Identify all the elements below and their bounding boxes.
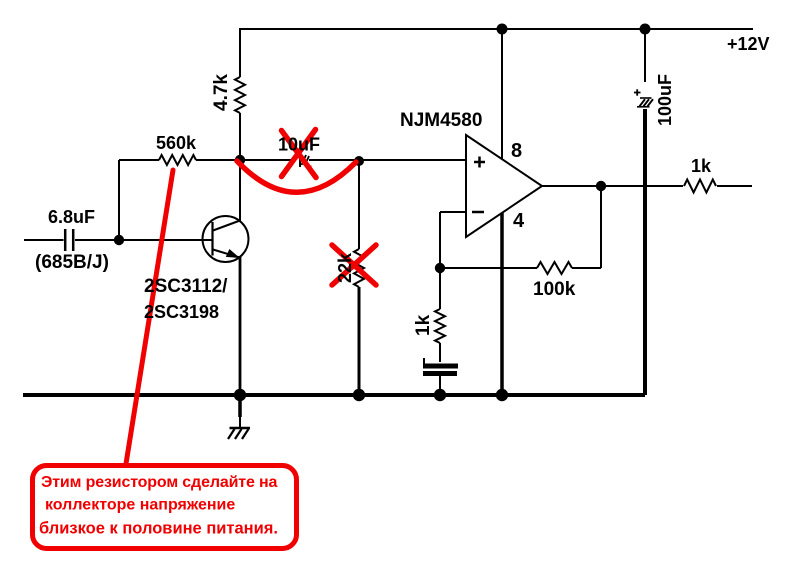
svg-text:(685В/J): (685В/J)	[35, 252, 109, 273]
svg-text:560k: 560k	[156, 133, 197, 153]
svg-text:8: 8	[511, 140, 522, 162]
svg-text:Этим резистором сделайте на: Этим резистором сделайте на	[41, 474, 278, 491]
svg-text:2SC3112/: 2SC3112/	[144, 276, 228, 297]
svg-text:2SC3198: 2SC3198	[144, 302, 219, 322]
svg-text:4.7k: 4.7k	[211, 74, 232, 111]
svg-text:6.8uF: 6.8uF	[48, 207, 95, 227]
svg-text:100uF: 100uF	[655, 74, 675, 126]
svg-text:22k: 22k	[335, 252, 355, 283]
svg-text:10uF: 10uF	[278, 135, 320, 155]
svg-text:NJM4580: NJM4580	[400, 110, 482, 131]
svg-text:+12V: +12V	[727, 34, 770, 54]
svg-text:1k: 1k	[691, 156, 712, 176]
svg-text:4: 4	[513, 210, 525, 232]
svg-text:100k: 100k	[533, 279, 576, 300]
svg-text:1k: 1k	[413, 314, 434, 336]
svg-text:коллекторе напряжение: коллекторе напряжение	[45, 497, 235, 514]
svg-text:близкое к половине питания.: близкое к половине питания.	[39, 520, 278, 538]
